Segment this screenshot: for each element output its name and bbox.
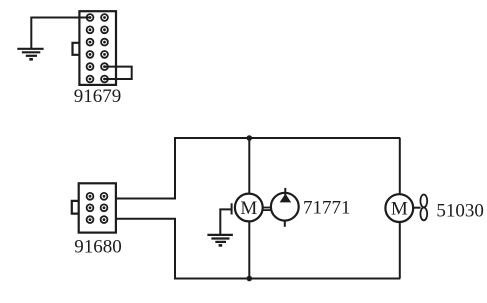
connector 91680 pin 2L [87, 204, 94, 211]
connector 91679 pin 6L [87, 76, 94, 83]
connector 91679 pin 6R [101, 76, 108, 83]
connector 91679 pin 5L [87, 63, 94, 70]
wire from ground G1 to connector 91679 pin 1 [31, 18, 90, 49]
connector 91679 pin 1R [101, 14, 108, 21]
fan blade bottom [420, 208, 427, 221]
svg-text:91679: 91679 [74, 86, 122, 107]
wire: motor M (middle) to bottom rail [248, 221, 250, 278]
connector 91680 pin 3R [101, 216, 108, 223]
connector 91680 pin 2R [101, 204, 108, 211]
pump bottom port stub [284, 221, 286, 227]
wire: fan motor M (right) to bottom rail [399, 222, 401, 279]
brush terminal bar at motor M [231, 203, 233, 214]
svg-text:M: M [240, 198, 257, 219]
junction node on top rail [247, 135, 253, 141]
junction node on bottom rail [247, 276, 253, 282]
motor M (middle, washer pump motor) [235, 194, 263, 222]
connector 91679 pin 1L [87, 14, 94, 21]
shaft coupling between motor and pump [263, 207, 271, 209]
svg-text:51030: 51030 [436, 201, 484, 222]
ground G2 [207, 235, 233, 246]
connector 91679 pin 2R [101, 26, 108, 33]
top rail wire [174, 137, 400, 139]
wire: top rail to motor M (middle) [248, 138, 250, 194]
connector 91679 pin 3L [87, 39, 94, 46]
fan blade top [420, 195, 427, 208]
svg-text:M: M [391, 199, 408, 220]
connector 91679 pin 3R [101, 39, 108, 46]
pump top port stub [284, 188, 286, 196]
wire A: 91680 to top rail [116, 139, 175, 199]
connector 91680 side tab [72, 201, 79, 214]
wire B: 91680 to bottom rail [116, 219, 175, 279]
wire: motor shaft to fan [413, 207, 420, 209]
connector 91680 pin 1R [101, 193, 108, 200]
connector 91679 pin 4R [101, 51, 108, 58]
connector 91680 pin 1L [87, 193, 94, 200]
bottom rail wire [174, 278, 400, 280]
connector 91679 body [79, 11, 116, 85]
connector 91680 body [79, 183, 116, 232]
connector 91679 pin 2L [87, 26, 94, 33]
jumper wire between pins 5R and 6R [105, 67, 132, 79]
pump flow triangle [280, 194, 292, 203]
wire: brush terminal to ground G2 [220, 209, 231, 234]
fan motor M (right) [385, 194, 413, 222]
connector 91679 side tab [73, 43, 80, 55]
connector 91679 pin 4L [87, 51, 94, 58]
pump 71771 body [271, 193, 299, 221]
wire: top rail to fan motor M (right) [399, 138, 401, 194]
svg-text:71771: 71771 [303, 198, 351, 219]
svg-text:91680: 91680 [74, 237, 122, 258]
connector 91679 pin 5R [101, 63, 108, 70]
ground G1 [17, 49, 43, 60]
connector 91680 pin 3L [87, 216, 94, 223]
